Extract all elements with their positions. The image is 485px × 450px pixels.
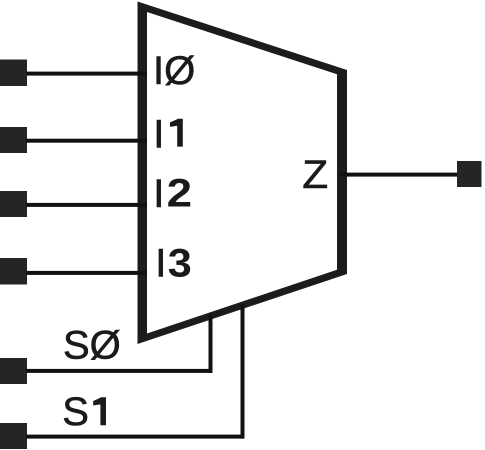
svg-text:S: S — [62, 390, 89, 434]
svg-text:SØ: SØ — [63, 324, 121, 368]
pin label I1 — [153, 113, 183, 157]
wire I1 — [26, 139, 147, 143]
output wire Z — [340, 173, 457, 177]
pin label I3 — [155, 240, 191, 286]
wire S0 vertical segment — [209, 314, 213, 373]
wire S0 horizontal segment — [26, 369, 213, 373]
pin label I2 — [153, 171, 192, 216]
svg-text:3: 3 — [168, 240, 192, 285]
svg-text:Z: Z — [302, 152, 328, 197]
input terminal square I2 — [0, 191, 27, 217]
multiplexer U1 trapezoid body — [138, 2, 348, 345]
input terminal square I1 — [0, 127, 27, 153]
svg-text:IØ: IØ — [153, 49, 195, 93]
wire I2 — [26, 203, 147, 207]
wire I3 — [26, 271, 147, 275]
select terminal square S0 — [0, 358, 27, 384]
svg-text:I: I — [153, 113, 164, 157]
svg-text:I: I — [155, 242, 166, 286]
input terminal square I3 — [0, 258, 27, 285]
select terminal square S1 — [0, 423, 27, 449]
input terminal square I0 — [0, 60, 27, 87]
wire S1 vertical segment — [241, 304, 245, 439]
output terminal square Z — [457, 161, 482, 187]
select label S1 — [62, 390, 106, 434]
wire I0 — [26, 72, 147, 76]
svg-text:2: 2 — [167, 171, 192, 216]
wire S1 horizontal segment — [26, 435, 245, 439]
svg-text:I: I — [153, 172, 164, 216]
